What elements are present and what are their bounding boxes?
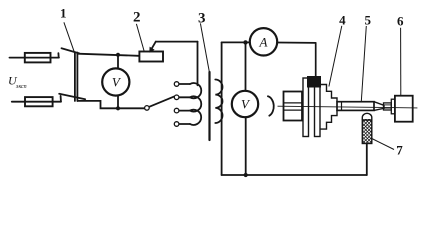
svg-text:5: 5 — [365, 13, 372, 28]
svg-text:A: A — [259, 34, 268, 49]
svg-text:6: 6 — [397, 14, 404, 29]
svg-text:2: 2 — [133, 9, 141, 25]
svg-text:7: 7 — [396, 143, 403, 158]
svg-text:4: 4 — [339, 13, 346, 28]
svg-text:эксп: эксп — [16, 84, 27, 90]
svg-text:V: V — [112, 75, 122, 90]
svg-text:V: V — [241, 97, 251, 112]
svg-text:3: 3 — [198, 11, 206, 27]
svg-text:1: 1 — [60, 6, 67, 21]
